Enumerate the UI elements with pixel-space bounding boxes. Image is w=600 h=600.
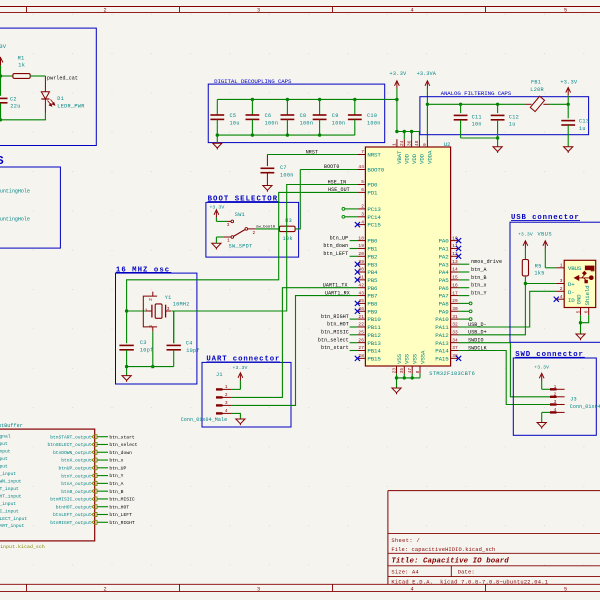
svg-text:10k: 10k — [283, 236, 293, 242]
unconnected end — [469, 318, 472, 321]
resistor R3 — [279, 218, 295, 242]
svg-text:MountingHole: MountingHole — [0, 188, 30, 194]
no-connect — [456, 254, 461, 259]
wire — [580, 323, 582, 334]
note box mounting holes — [0, 167, 60, 248]
svg-text:SW1: SW1 — [235, 212, 245, 218]
wire — [411, 374, 413, 378]
note box SWD connector — [513, 358, 596, 435]
svg-text:D+: D+ — [568, 281, 575, 288]
svg-text:PA10: PA10 — [435, 316, 449, 323]
svg-text:SWDIO: SWDIO — [468, 338, 484, 344]
sheet pin btnX_output — [61, 458, 97, 464]
svg-text:+3.3V: +3.3V — [518, 232, 533, 238]
svg-text:17: 17 — [452, 290, 458, 296]
junction — [496, 103, 499, 106]
svg-text:PB1: PB1 — [367, 246, 378, 253]
note box USB connector — [510, 222, 600, 342]
svg-text:btn_A: btn_A — [109, 481, 123, 487]
svg-text:btnX_output: btnX_output — [61, 458, 92, 464]
svg-text:HT_input: HT_input — [0, 493, 22, 499]
switch SW1 — [224, 212, 256, 250]
wire — [397, 377, 421, 379]
svg-text:C9: C9 — [332, 113, 339, 119]
net label BOOT0 — [324, 164, 340, 170]
unconnected end — [469, 302, 472, 305]
svg-text:btnRIGHT_output: btnRIGHT_output — [50, 520, 92, 526]
capacitor C12 — [491, 104, 519, 138]
svg-text:34: 34 — [452, 337, 458, 343]
svg-text:C3: C3 — [140, 340, 147, 346]
sheet pin btnRIGHT_output — [50, 520, 97, 526]
connector J3 — [534, 364, 600, 410]
junction — [496, 136, 499, 139]
svg-text:37: 37 — [452, 345, 458, 351]
net label sw_boot0 — [256, 225, 276, 230]
svg-text:J1: J1 — [216, 372, 223, 378]
svg-text:PA12: PA12 — [435, 332, 449, 339]
svg-text:PB0: PB0 — [367, 238, 378, 245]
svg-text:6: 6 — [361, 187, 364, 193]
svg-text:4: 4 — [148, 325, 154, 328]
svg-text:PB5: PB5 — [367, 277, 378, 284]
svg-text:23: 23 — [391, 368, 397, 374]
net label btn_start — [321, 345, 349, 351]
net label btn_MISIC — [321, 330, 349, 336]
svg-text:PB11: PB11 — [367, 324, 381, 331]
junction — [216, 133, 219, 136]
junction — [395, 98, 398, 101]
wire — [295, 170, 300, 229]
svg-text:btn_MISIC: btn_MISIC — [321, 330, 349, 336]
net label USB_D- — [468, 322, 487, 328]
no-connect — [456, 356, 461, 361]
svg-text:8: 8 — [415, 370, 421, 373]
svg-text:+3.3V: +3.3V — [560, 79, 578, 85]
svg-text:PA8: PA8 — [439, 301, 450, 308]
svg-text:PC15: PC15 — [367, 222, 381, 229]
net label btn_UP — [330, 235, 349, 241]
wire uart tx — [231, 288, 357, 398]
svg-text:ART_input: ART_input — [0, 523, 25, 529]
svg-text:GND: GND — [576, 294, 583, 305]
wire — [97, 443, 108, 445]
svg-text:PA6: PA6 — [439, 285, 450, 292]
sheet InputBuffer outline — [0, 423, 95, 550]
wire c4 top — [173, 311, 175, 343]
svg-text:1u: 1u — [509, 122, 516, 128]
svg-text:4: 4 — [560, 294, 563, 300]
MCU U2 pins — [357, 139, 458, 374]
svg-text:USB connector: USB connector — [511, 214, 580, 222]
junction — [251, 98, 254, 101]
svg-text:3: 3 — [554, 399, 557, 405]
no-connect — [355, 301, 360, 306]
svg-text:LECT_input: LECT_input — [0, 516, 27, 522]
svg-text:1: 1 — [560, 263, 563, 269]
wire — [97, 459, 108, 461]
svg-text:43: 43 — [358, 290, 364, 296]
ground — [564, 147, 573, 153]
sheet pin fragment put — [0, 456, 8, 462]
power VBUS — [537, 232, 552, 268]
svg-text:R5: R5 — [535, 264, 542, 270]
svg-text:BOOT0: BOOT0 — [367, 167, 384, 174]
wire — [396, 99, 398, 131]
sheet pin fragment gnal — [0, 434, 11, 440]
svg-text:18: 18 — [358, 235, 364, 241]
svg-text:btn_HOT: btn_HOT — [109, 504, 129, 510]
note text DIGITAL DECOUPLING CAPS — [214, 78, 292, 85]
ground — [392, 388, 401, 394]
svg-text:PA11: PA11 — [435, 324, 449, 331]
wire shield loop — [581, 315, 589, 322]
svg-text:btnHOT_output: btnHOT_output — [56, 504, 92, 510]
svg-text:put: put — [0, 456, 8, 462]
junction — [0, 74, 2, 77]
svg-text:10pf: 10pf — [186, 348, 200, 354]
wire swdio — [459, 343, 550, 397]
wire — [580, 315, 582, 322]
unconnected end — [342, 208, 345, 211]
sheet pin fragment put — [0, 463, 8, 469]
junction — [395, 376, 398, 379]
svg-text:btn_LEFT: btn_LEFT — [323, 251, 348, 257]
svg-text:38: 38 — [452, 353, 458, 359]
svg-text:btnA_output: btnA_output — [61, 481, 92, 487]
svg-text:HSE_IN: HSE_IN — [328, 179, 347, 185]
svg-text:C6: C6 — [265, 113, 272, 119]
svg-text:btn_UP: btn_UP — [109, 465, 126, 471]
svg-text:input.kicad_sch: input.kicad_sch — [0, 544, 45, 550]
capacitor C13 — [561, 104, 589, 146]
svg-text:File: capacitiveHIDIO.kicad_sc: File: capacitiveHIDIO.kicad_sch — [391, 547, 495, 553]
junction — [286, 133, 289, 136]
svg-text:3: 3 — [257, 587, 260, 593]
wire — [419, 374, 421, 378]
svg-text:put: put — [0, 463, 8, 469]
svg-text:PB2: PB2 — [367, 253, 378, 260]
svg-text:27: 27 — [358, 345, 364, 351]
sheet pin btnHOT_output — [56, 504, 97, 510]
wire — [542, 388, 550, 390]
sheet pin btnDOWN_output — [53, 450, 97, 456]
svg-text:VSSA: VSSA — [419, 350, 426, 364]
svg-text:3: 3 — [225, 400, 228, 406]
svg-text:5: 5 — [564, 8, 567, 14]
wire — [350, 248, 358, 250]
wire — [97, 436, 108, 438]
ground — [537, 423, 546, 429]
svg-text:PB4: PB4 — [367, 269, 378, 276]
connector J1 pin 2 — [216, 392, 231, 399]
svg-text:29: 29 — [452, 298, 458, 304]
svg-text:13: 13 — [452, 259, 458, 265]
wire — [97, 467, 108, 469]
svg-text:put: put — [0, 441, 8, 447]
svg-text:2: 2 — [103, 8, 106, 14]
net label btn_MISIC — [109, 497, 135, 503]
mounting hole H2 — [0, 217, 30, 223]
svg-text:4: 4 — [225, 408, 228, 414]
svg-text:2: 2 — [253, 230, 256, 236]
svg-text:btnLEFT_output: btnLEFT_output — [53, 512, 92, 518]
net label btn_select — [318, 337, 349, 343]
svg-text:48: 48 — [414, 140, 420, 146]
svg-text:D-: D- — [568, 289, 575, 296]
svg-text:NRST: NRST — [367, 152, 381, 159]
svg-text:btn_B: btn_B — [471, 275, 487, 281]
wire — [152, 331, 154, 366]
svg-text:21: 21 — [358, 314, 364, 320]
sheet pin fragment T_input — [0, 486, 19, 492]
svg-text:35: 35 — [399, 368, 405, 374]
wire — [459, 310, 470, 312]
svg-text:47: 47 — [407, 368, 413, 374]
capacitor C5 — [210, 99, 239, 135]
ground — [493, 147, 502, 153]
svg-text:btn_UP: btn_UP — [330, 235, 349, 241]
svg-text:VDDA: VDDA — [427, 150, 434, 164]
svg-text:C2: C2 — [10, 96, 17, 102]
wire — [97, 498, 108, 500]
svg-text:42: 42 — [358, 282, 364, 288]
svg-text:Y1: Y1 — [165, 295, 172, 301]
svg-text:PA14: PA14 — [435, 348, 449, 355]
svg-text:2: 2 — [361, 204, 364, 210]
svg-text:NRST: NRST — [306, 149, 318, 155]
svg-text:btn_Y: btn_Y — [109, 473, 123, 479]
note box boot selector — [206, 202, 299, 257]
svg-text:4: 4 — [554, 407, 557, 413]
svg-text:+3.3VA: +3.3VA — [417, 71, 437, 77]
sheet pin fragment WN_input — [0, 478, 22, 484]
wire — [216, 236, 224, 238]
svg-text:7: 7 — [361, 149, 364, 155]
svg-text:nput: nput — [0, 449, 11, 455]
wire — [350, 326, 358, 328]
wire — [459, 318, 470, 320]
svg-text:nmos_drive: nmos_drive — [471, 259, 502, 265]
svg-text:3: 3 — [361, 212, 364, 218]
junction — [318, 98, 321, 101]
svg-text:L20R: L20R — [530, 87, 544, 93]
junction — [403, 376, 406, 379]
wire — [126, 367, 128, 376]
wire — [216, 220, 227, 222]
sheet pin btnY_output — [61, 473, 97, 479]
svg-text:btn_start: btn_start — [109, 434, 135, 440]
wire bottom — [127, 366, 174, 368]
wire — [545, 267, 556, 269]
svg-text:22: 22 — [358, 322, 364, 328]
sheet pin fragment put — [0, 441, 8, 447]
svg-text:btn_down: btn_down — [109, 450, 132, 456]
no-connect — [355, 277, 360, 282]
svg-text:PA4: PA4 — [439, 269, 450, 276]
wire — [403, 132, 405, 140]
svg-text:11: 11 — [452, 243, 458, 249]
svg-text:btn_Y: btn_Y — [471, 291, 487, 297]
junction — [395, 130, 398, 133]
connector J1 pin 3 — [216, 400, 231, 407]
svg-text:10n: 10n — [472, 122, 482, 128]
junction — [151, 365, 154, 368]
svg-text:btnSTART_output: btnSTART_output — [50, 434, 92, 440]
svg-text:PB13: PB13 — [367, 340, 381, 347]
junction — [353, 98, 356, 101]
svg-text:FB1: FB1 — [531, 79, 541, 85]
svg-text:4: 4 — [410, 587, 413, 593]
net label btn_B — [471, 275, 487, 281]
svg-text:+3.3V: +3.3V — [233, 365, 248, 371]
svg-text:9: 9 — [422, 143, 428, 146]
svg-text:16MHz: 16MHz — [173, 302, 190, 308]
net label btn_start — [109, 434, 135, 440]
svg-text:PB12: PB12 — [367, 332, 381, 339]
svg-text:btn_x: btn_x — [109, 458, 123, 464]
svg-text:+3.3V: +3.3V — [534, 364, 549, 370]
svg-text:100n: 100n — [300, 120, 314, 126]
connector J1 — [181, 365, 248, 423]
wire — [461, 137, 498, 139]
svg-text:WN_input: WN_input — [0, 478, 22, 484]
connector J1 pin 1 — [216, 384, 231, 391]
wire hse_out path — [127, 192, 358, 311]
power +3.3V (usb) — [518, 232, 533, 260]
wire — [459, 295, 470, 297]
connector J3 pin 2 — [550, 391, 565, 398]
net label SWDCLK — [468, 345, 487, 351]
wire hse_in path — [172, 185, 357, 312]
net label btn_LEFT — [109, 512, 132, 518]
svg-text:btn_start: btn_start — [321, 345, 349, 351]
capacitor C11 — [454, 104, 482, 138]
ground — [576, 334, 585, 340]
svg-text:VBUS: VBUS — [537, 232, 552, 238]
sheet pin btnUP_output — [59, 466, 97, 472]
resistor R1 — [13, 55, 30, 78]
svg-text:3: 3 — [560, 278, 563, 284]
svg-text:14: 14 — [452, 267, 458, 273]
svg-text:btn_B: btn_B — [109, 489, 123, 495]
wire — [300, 169, 357, 171]
svg-text:6: 6 — [584, 310, 590, 313]
svg-text:J3: J3 — [570, 396, 577, 402]
svg-text:PB10: PB10 — [367, 316, 381, 323]
svg-text:10pf: 10pf — [140, 347, 154, 353]
svg-text:Shield: Shield — [584, 286, 591, 306]
net label btn_Y — [471, 291, 487, 297]
power +3.3V (usb filt) — [560, 79, 578, 104]
svg-text:Sheet: /: Sheet: / — [391, 538, 420, 544]
svg-text:PD0: PD0 — [367, 182, 378, 189]
svg-text:_input: _input — [0, 501, 16, 507]
svg-text:1: 1 — [225, 384, 228, 390]
no-connect — [355, 356, 360, 361]
sheet pin btnMISIC_output — [50, 497, 97, 503]
svg-text:Title: Capacitive IO board: Title: Capacitive IO board — [391, 558, 509, 566]
wire — [345, 208, 358, 210]
svg-text:btnSELECT_output: btnSELECT_output — [47, 442, 91, 448]
sheet pin fragment nput — [0, 449, 11, 455]
capacitor C10 — [348, 99, 381, 135]
svg-text:2: 2 — [225, 392, 228, 398]
note text 16 MHZ osc — [116, 266, 171, 274]
wire — [127, 310, 147, 312]
svg-text:ANALOG FILTERING CAPS: ANALOG FILTERING CAPS — [441, 90, 512, 97]
svg-text:PC13: PC13 — [367, 206, 381, 213]
svg-text:+3.3V: +3.3V — [0, 44, 7, 50]
junction — [579, 321, 582, 324]
wire — [350, 318, 358, 320]
wire — [217, 134, 354, 136]
svg-text:+3.3V: +3.3V — [209, 205, 224, 211]
wire — [0, 113, 45, 120]
wire — [97, 514, 108, 516]
ground — [122, 376, 131, 382]
wire — [30, 75, 45, 77]
unconnected end — [469, 310, 472, 313]
svg-text:VBUS: VBUS — [568, 265, 582, 272]
svg-text:pwrled_cat: pwrled_cat — [47, 75, 78, 81]
net label btn_HOT — [109, 504, 129, 510]
wire — [459, 302, 470, 304]
svg-text:UART1_RX: UART1_RX — [325, 290, 350, 296]
net label nmos_drive — [471, 259, 502, 265]
MCU U2 body — [365, 141, 475, 377]
junction — [251, 133, 254, 136]
svg-text:VBAT: VBAT — [396, 150, 403, 164]
wire — [97, 506, 108, 508]
svg-text:btn_MISIC: btn_MISIC — [109, 497, 135, 503]
svg-text:PA5: PA5 — [439, 277, 450, 284]
svg-text:C12: C12 — [509, 114, 519, 120]
net label btn_RIGHT — [109, 520, 135, 526]
capacitor C7 — [261, 155, 294, 186]
svg-text:36: 36 — [406, 140, 412, 146]
power +3.3V (vdd) — [389, 71, 407, 99]
mounting hole H1 — [0, 188, 30, 194]
svg-text:U2: U2 — [444, 141, 451, 148]
svg-text:C7: C7 — [280, 165, 287, 171]
sheet pin btnSTART_output — [50, 434, 97, 440]
unconnected end — [342, 215, 345, 218]
LED D1 — [41, 76, 84, 113]
svg-text:1u: 1u — [579, 126, 586, 132]
svg-text:btnDOWN_output: btnDOWN_output — [53, 450, 92, 456]
svg-text:1: 1 — [554, 384, 557, 390]
wire — [350, 342, 358, 344]
svg-text:PA13: PA13 — [435, 340, 449, 347]
wire — [231, 388, 240, 390]
note text ANALOG FILTERING CAPS — [441, 90, 512, 97]
sheet pin btnSELECT_output — [47, 442, 97, 448]
svg-text:LEDR_PWR: LEDR_PWR — [57, 103, 84, 109]
USB connector J2 — [556, 260, 595, 315]
power +3.3V (swd) — [539, 373, 544, 389]
svg-text:KiCad E.D.A. kicad 7.0.8-7.0.: KiCad E.D.A. kicad 7.0.8-7.0.8~ubuntu22.… — [391, 580, 548, 586]
svg-text:btn_RIGHT: btn_RIGHT — [109, 520, 135, 526]
wire — [497, 138, 499, 147]
svg-text:2: 2 — [148, 298, 154, 301]
svg-text:C_input: C_input — [0, 508, 19, 514]
svg-text:15: 15 — [452, 275, 458, 281]
no-connect — [456, 246, 461, 251]
svg-text:12: 12 — [452, 251, 458, 257]
svg-text:10: 10 — [452, 235, 458, 241]
svg-text:VSS: VSS — [396, 353, 403, 364]
